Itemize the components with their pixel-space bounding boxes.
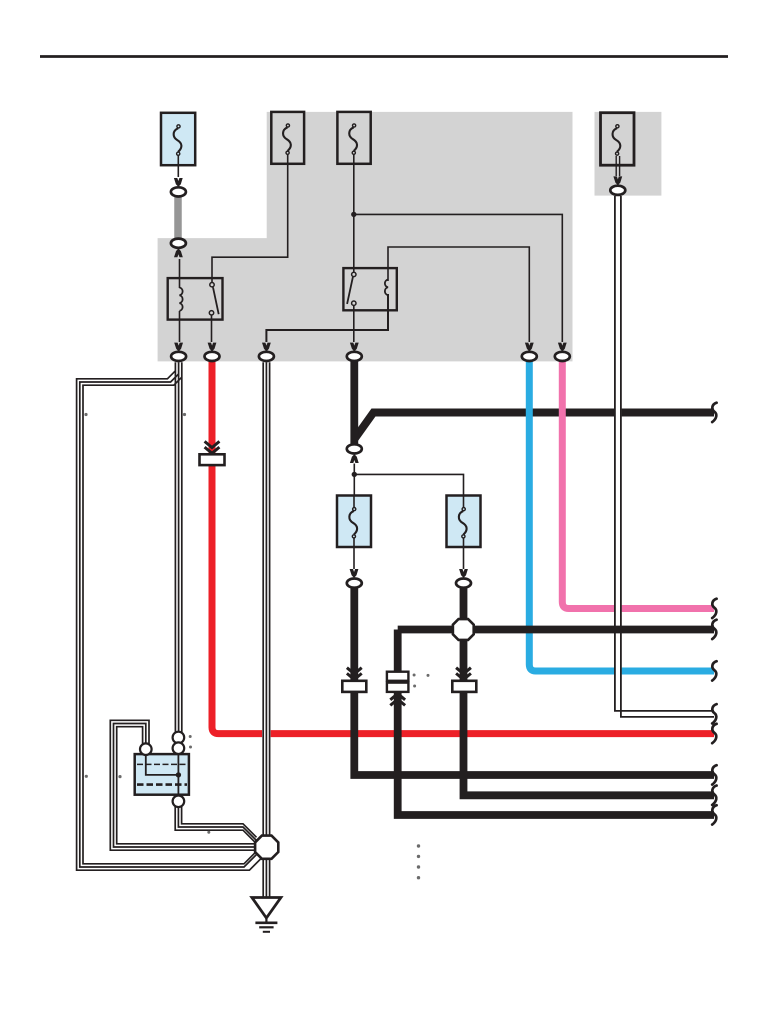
ground symbol <box>252 898 281 932</box>
shading around fuse F4 <box>595 112 662 196</box>
node black wire junction above fuses <box>352 472 357 477</box>
relay R1 <box>168 278 223 320</box>
fuse F1 connector chain <box>171 178 186 257</box>
wire fuse F6 to connector <box>463 539 465 570</box>
right black wire inline connector <box>452 668 476 692</box>
fuse F3 <box>337 112 370 164</box>
continuation curl black wire 2 <box>712 786 716 805</box>
relay R2 switch contacts <box>352 272 356 276</box>
oval connector 6 (pink wire) <box>555 352 570 361</box>
oval connector below fuse F1 <box>171 187 186 196</box>
fuse F6 lower connector <box>456 569 471 588</box>
octagon junction J2 <box>453 619 474 640</box>
black bus wire to page edge A <box>355 413 714 439</box>
wire relay R1 switch bottom to connector <box>211 315 213 342</box>
up arrow below oval <box>174 248 183 257</box>
black wire fuse F6 through octagon junction down to page edge <box>464 589 715 796</box>
arrow into connector 3 (shield) <box>262 343 271 352</box>
pin circle top 2 <box>173 742 185 754</box>
wire fuse F4 to connector (double) <box>615 156 617 176</box>
wire fuse F1 to connector <box>177 156 179 178</box>
relay R2 switch blade <box>347 277 353 304</box>
pin circle left <box>140 743 152 755</box>
arrow into connector 4 (black) <box>350 343 359 352</box>
red wire inline connector <box>200 441 225 465</box>
arrow into connector 6 (pink) <box>558 343 567 352</box>
black wire relay R2 to junction connector <box>350 361 358 444</box>
shield wire octagon to ground (triple) <box>263 856 269 898</box>
oval connector 5 (blue wire) <box>522 352 537 361</box>
shield wire from connector3 to octagon (triple) <box>263 362 269 839</box>
continuation curl black wire 3 <box>712 805 716 824</box>
relay block shading (engine room) <box>158 112 573 362</box>
shield dashed line upper <box>137 763 187 765</box>
double chevron <box>205 441 220 453</box>
shield dashed line lower <box>137 783 187 786</box>
shielded component box (camera) <box>135 732 189 807</box>
wire relay R1 coil bottom to connector <box>179 311 181 342</box>
fuse F1 <box>161 113 195 166</box>
arrow into connector 5 (blue) <box>525 343 534 352</box>
wire continuation curls at page right edge <box>712 403 716 825</box>
black wire octagon branch left and down to page edge <box>398 630 714 816</box>
shield loop path C from box left pin (triple) <box>110 720 256 850</box>
relay R2 coil <box>385 280 388 296</box>
arrow into connector 1 <box>174 343 183 352</box>
continuation curl red wire <box>712 724 716 743</box>
fuse F5 lower connector <box>347 569 362 588</box>
black wire octagon junction horizontal to page edge <box>398 626 714 634</box>
blue wire <box>529 361 714 671</box>
connector arrows row at relay block bottom <box>174 343 566 352</box>
tiny reference marks <box>84 413 429 880</box>
middle black wire inline connector (double rect + up chevron) <box>387 672 409 706</box>
white wire from fuse F4 inner line <box>621 196 714 717</box>
pin circle bottom <box>173 796 185 808</box>
continuation curl black octagon branch <box>712 620 716 639</box>
fuse F5 <box>337 496 371 549</box>
red wire <box>212 361 714 734</box>
oval connector 4 (black wire) <box>347 352 362 361</box>
white wire from fuse F4 underlay <box>618 196 714 714</box>
relay R1 coil <box>180 288 183 311</box>
black wire fuse F5 branch down-left to page edge <box>354 589 714 776</box>
shield wire underlays (white fill) <box>80 362 267 897</box>
internal wire vertical <box>177 742 179 806</box>
oval connector above relay R1 <box>171 239 186 248</box>
wire fuse F5 to connector <box>353 539 355 570</box>
connector ovals row at relay block bottom <box>171 352 570 361</box>
fuse F6 <box>447 496 481 549</box>
oval connector 3 (shield wire) <box>259 352 274 361</box>
wire junction to fuse F5 <box>353 464 355 508</box>
wire node to pink connector <box>354 214 563 342</box>
wire relay R2 switch bottom to connector <box>353 305 355 342</box>
relay R2 <box>343 268 396 310</box>
internal wire from left pin <box>146 753 179 775</box>
left black wire inline connector <box>342 668 366 692</box>
wire junction to fuse F6 <box>354 474 463 507</box>
wire relay R2 coil bottom to shield connector <box>266 294 388 342</box>
fuse F4 <box>601 113 635 166</box>
octagon junction J1 <box>255 836 278 859</box>
continuation curl black wire 1 <box>712 765 716 784</box>
shield path D from box bottom pin (triple) <box>175 805 256 844</box>
wire fuse F2 to relay R1 switch <box>212 154 288 283</box>
shield wire from connector1 (triple) <box>175 362 181 733</box>
wire relay R2 coil to blue connector <box>388 247 529 342</box>
relay R1 switch blade <box>213 287 219 314</box>
shield outer loop path B (triple) <box>77 371 263 870</box>
continuation curl white wire <box>712 704 716 723</box>
oval connector 1 (shield wire) <box>171 352 186 361</box>
node fuse F3 branch junction <box>351 212 356 217</box>
continuation curl pink wire <box>712 599 716 618</box>
gray wire fuse F1 to relay <box>174 197 182 239</box>
continuation curl blue wire <box>712 661 716 680</box>
header rule <box>40 55 728 58</box>
arrow below fuse F1 <box>174 178 183 187</box>
relay R1 switch contacts <box>210 283 214 287</box>
white wire from fuse F4 outer line <box>615 196 714 711</box>
arrow into connector 2 (red) <box>208 343 217 352</box>
fuse F2 <box>271 112 304 164</box>
oval connector 2 (red wire) <box>205 352 220 361</box>
internal junction node <box>176 772 181 777</box>
wire relay R1 coil top to connector <box>179 259 181 288</box>
continuation curl black bus A <box>712 403 716 422</box>
fuse F4 connector <box>610 176 625 194</box>
pink wire <box>562 361 714 609</box>
pin circle top 1 <box>173 732 185 744</box>
wire fuse F3 to relay R2 switch <box>353 154 355 273</box>
mid connector on black wire (oval + up arrow) <box>347 444 362 463</box>
